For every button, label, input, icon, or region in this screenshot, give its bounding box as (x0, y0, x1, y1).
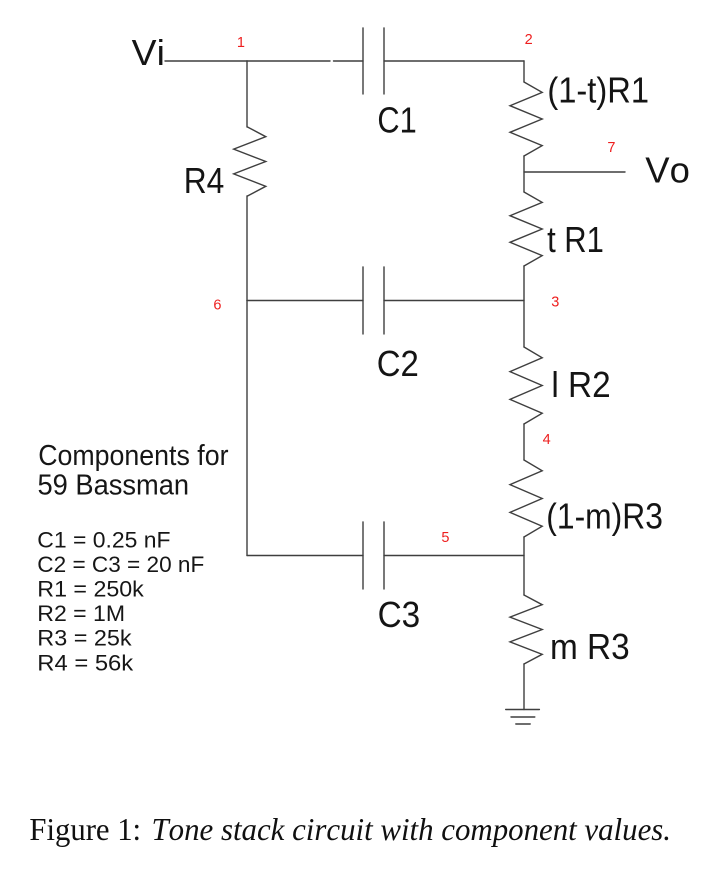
wire: node 7 to Vo (524, 171, 625, 173)
wire: R4 to node 6 (246, 196, 248, 301)
resistor l R2 (510, 347, 542, 424)
wire: left column to C3 left plate (247, 555, 363, 557)
wire: (1-m)R3 to m R3 through node 5 (523, 537, 525, 595)
svg-text:C1 = 0.25 nF: C1 = 0.25 nF (37, 527, 170, 552)
wire: node 2 to resistor (1-t)R1 (523, 61, 525, 82)
svg-text:C1: C1 (377, 100, 416, 141)
wire: node 1 to C1 left plate (247, 60, 330, 62)
svg-text:t R1: t R1 (547, 219, 604, 260)
svg-text:C2 = C3 = 20 nF: C2 = C3 = 20 nF (37, 552, 204, 577)
wire: C3 right plate to node 5 (384, 555, 524, 557)
svg-text:Tone stack circuit with compon: Tone stack circuit with component values… (152, 811, 672, 847)
svg-text:5: 5 (441, 530, 449, 546)
resistor R4 (234, 127, 266, 196)
svg-text:1: 1 (237, 35, 245, 51)
resistor (1-t)R1 (510, 82, 542, 156)
capacitor C2 (362, 267, 364, 334)
wire: node 6 down to C3 branch (246, 301, 248, 556)
wire: C1 right plate to node 2 (384, 60, 524, 62)
svg-text:7: 7 (607, 140, 615, 156)
wire: node 3 to C2 right plate (384, 300, 524, 302)
svg-text:4: 4 (543, 432, 551, 448)
capacitor C3 (362, 522, 364, 589)
svg-text:R2 = 1M: R2 = 1M (37, 601, 125, 626)
svg-text:C2: C2 (377, 343, 419, 384)
svg-text:R4 = 56k: R4 = 56k (37, 651, 134, 676)
svg-text:Vo: Vo (645, 150, 690, 191)
svg-text:m R3: m R3 (550, 626, 630, 667)
svg-text:R4: R4 (184, 160, 225, 201)
resistor t R1 (510, 192, 542, 266)
svg-text:Vi: Vi (132, 32, 165, 73)
wire: C2 left plate to node 6 (247, 300, 363, 302)
svg-text:3: 3 (551, 294, 559, 310)
svg-text:R1 = 250k: R1 = 250k (37, 576, 145, 601)
resistor (1-m)R3 (510, 460, 542, 537)
wire: m R3 to ground (523, 664, 525, 710)
resistor m R3 (510, 595, 542, 664)
svg-text:2: 2 (525, 32, 533, 48)
svg-text:59 Bassman: 59 Bassman (38, 470, 190, 502)
wire: l R2 to (1-m)R3 through node 4 (523, 424, 525, 460)
svg-text:(1-m)R3: (1-m)R3 (546, 496, 663, 537)
wire: node 1 to resistor R4 (246, 61, 248, 127)
svg-text:R3 = 25k: R3 = 25k (37, 626, 132, 651)
capacitor C1 (362, 28, 364, 94)
svg-text:Figure 1:: Figure 1: (29, 811, 141, 847)
svg-text:l R2: l R2 (551, 364, 610, 405)
ground (506, 709, 540, 711)
svg-text:(1-t)R1: (1-t)R1 (547, 69, 649, 110)
wire: t R1 to l R2 through node 3 (523, 266, 525, 347)
svg-text:6: 6 (213, 297, 221, 313)
wire: (1-t)R1 to t R1 through node 7 (523, 156, 525, 192)
svg-text:Components for: Components for (38, 440, 229, 472)
wire: Vi to node 1 (165, 60, 247, 62)
svg-text:C3: C3 (378, 594, 421, 635)
